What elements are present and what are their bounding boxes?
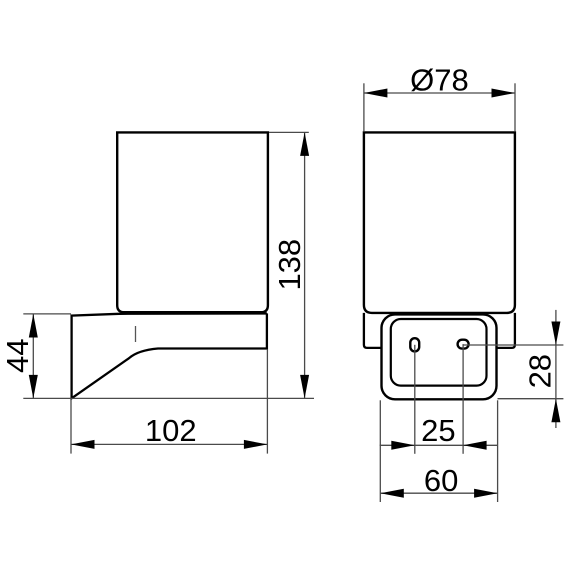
tumbler glass (side view) — [117, 132, 268, 312]
dim 60 extension line left — [379, 400, 381, 502]
holder shell outer outline (front view) — [382, 314, 497, 399]
tumbler glass (front view) — [364, 132, 515, 313]
dim 44 dimension line — [32, 314, 34, 398]
dim 138 extension line top — [269, 131, 309, 133]
dim 60 arrow left — [380, 489, 404, 498]
dim 25 dimension line — [380, 444, 498, 446]
svg-text:138: 138 — [272, 239, 307, 291]
dim 44 extension line top — [23, 313, 71, 315]
dim 60 extension line right — [497, 400, 499, 502]
svg-text:Ø78: Ø78 — [410, 62, 469, 97]
svg-text:102: 102 — [145, 413, 197, 448]
svg-text:44: 44 — [0, 339, 35, 373]
dim 60 arrow right — [474, 489, 498, 498]
dim 25 extension line left (from left slot) — [414, 345, 416, 454]
svg-text:25: 25 — [421, 413, 455, 448]
dim 102 extension line right — [266, 350, 268, 454]
dim 25 arrow left (pointing right) — [391, 441, 415, 450]
dim 28 extension line bottom — [498, 398, 564, 400]
dim 25 arrow right (pointing left) — [463, 441, 487, 450]
dim 44 arrow top — [29, 314, 38, 338]
shared bottom extension line (44/138) — [23, 397, 314, 399]
svg-text:60: 60 — [424, 463, 458, 498]
tumbler lower body left stub (behind holder) — [364, 313, 382, 348]
mounting hole mark (side view) — [135, 326, 137, 342]
right mounting slot (horizontal) — [458, 340, 469, 349]
dim 102 dimension line — [71, 443, 267, 445]
svg-text:28: 28 — [523, 354, 558, 388]
dim 138 arrow bottom — [300, 375, 309, 399]
left mounting slot (vertical) — [410, 338, 419, 351]
holder bracket (side view) — [72, 313, 267, 398]
dim 28 arrow bottom (pointing up) — [551, 399, 560, 423]
dim 102 arrow right — [244, 440, 268, 449]
dim Ø78 dimension line — [364, 92, 515, 94]
dim O78 arrow right — [492, 89, 516, 98]
dim 102 arrow left — [71, 440, 95, 449]
dim 44 arrow bottom — [29, 375, 38, 399]
dim 102 extension line left — [70, 399, 72, 454]
dim 28 arrow top (pointing down) — [551, 322, 560, 346]
dim 138 arrow top — [300, 132, 309, 156]
dim 60 dimension line — [380, 492, 497, 494]
dim 28 dimension line — [555, 310, 557, 428]
dim 28 leader line from right slot — [463, 344, 563, 346]
dim 25 extension line right (from right slot) — [462, 344, 464, 454]
holder shell inner edge (front view) — [391, 319, 487, 386]
dim 138 dimension line — [304, 132, 306, 398]
dim Ø78 extension line right — [514, 83, 516, 131]
dim Ø78 extension line left — [363, 83, 365, 131]
tumbler lower body right stub (behind holder) — [497, 313, 515, 348]
dim O78 arrow left — [364, 89, 388, 98]
